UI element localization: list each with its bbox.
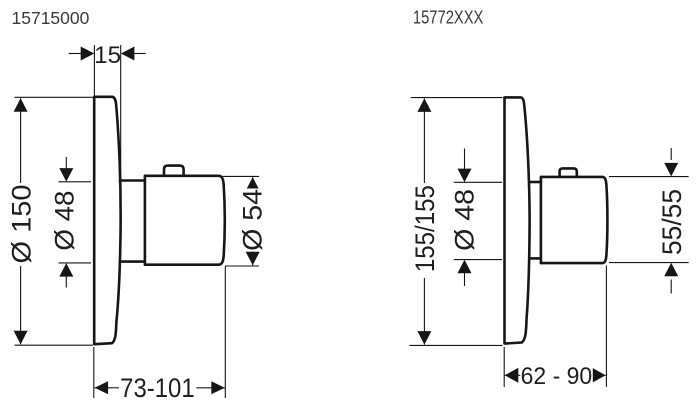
neck / sleeve lines (left product)	[119, 181, 145, 262]
dimension Ø 48 (neck diameter, right drawing)	[449, 149, 502, 287]
escutcheon plate (left product)	[94, 97, 120, 344]
handle button (left product)	[164, 166, 184, 176]
svg-text:155/155: 155/155	[410, 185, 440, 272]
dimension Ø 54 (handle diameter, left)	[223, 176, 268, 266]
dimension 155/155 (plate size, right drawing left side)	[410, 98, 503, 346]
svg-text:15772XXX: 15772XXX	[413, 8, 484, 28]
dimension 55/55 (handle size, right drawing right side)	[609, 148, 689, 294]
handle knob (left product)	[145, 176, 225, 265]
dimension 73-101 (depth range, bottom left)	[94, 267, 226, 404]
dimension 62 - 90 (depth range, bottom right)	[504, 266, 606, 390]
svg-text:Ø 54: Ø 54	[237, 189, 267, 251]
svg-text:15715000: 15715000	[12, 8, 90, 28]
escutcheon plate (right product)	[505, 97, 530, 343]
svg-text:Ø 48: Ø 48	[449, 189, 479, 251]
svg-text:62 - 90: 62 - 90	[521, 363, 593, 390]
svg-text:15: 15	[94, 42, 121, 69]
neck / sleeve lines (right product)	[528, 182, 541, 258]
handle knob (right product)	[541, 177, 608, 263]
dimension 15 (plate depth, top left)	[69, 42, 146, 185]
dimension Ø 48 (neck diameter, left)	[50, 157, 91, 288]
svg-text:Ø 48: Ø 48	[50, 191, 80, 251]
dimension Ø 150 (plate diameter, left)	[6, 97, 93, 345]
svg-text:55/55: 55/55	[657, 189, 687, 255]
svg-text:Ø 150: Ø 150	[6, 184, 36, 263]
svg-text:73-101: 73-101	[120, 373, 195, 403]
handle button (right product)	[560, 168, 577, 176]
